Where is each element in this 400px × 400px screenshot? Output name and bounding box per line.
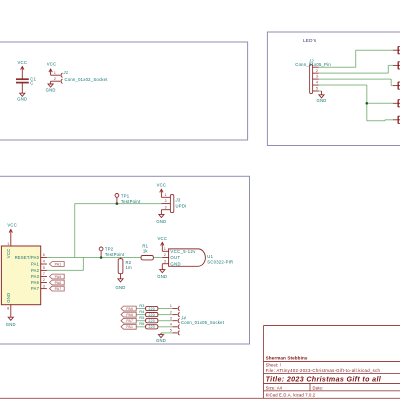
svg-text:TestPoint: TestPoint	[121, 199, 141, 204]
svg-text:3: 3	[316, 75, 318, 79]
svg-text:PA5: PA5	[55, 275, 62, 279]
svg-text:PA1: PA1	[55, 262, 62, 266]
svg-text:2: 2	[165, 199, 167, 203]
svg-text:UPDI: UPDI	[176, 203, 187, 208]
svg-text:4: 4	[316, 81, 318, 85]
svg-text:Conn_01x02_Socket: Conn_01x02_Socket	[65, 77, 109, 82]
svg-text:GND: GND	[156, 219, 166, 224]
svg-text:GND: GND	[170, 261, 181, 266]
svg-text:2: 2	[43, 278, 45, 282]
svg-text:PA3: PA3	[31, 274, 40, 279]
svg-text:PA5: PA5	[126, 307, 133, 311]
svg-text:R4: R4	[139, 310, 144, 314]
svg-text:R3: R3	[139, 304, 144, 308]
svg-text:220: 220	[148, 307, 154, 311]
svg-text:8: 8	[7, 307, 9, 311]
svg-text:TP2: TP2	[105, 247, 114, 252]
svg-text:LED’s: LED’s	[303, 38, 317, 43]
svg-text:6: 6	[43, 253, 45, 257]
svg-text:VCC: VCC	[7, 223, 17, 228]
svg-text:RESET/PA0: RESET/PA0	[15, 255, 40, 260]
svg-text:3: 3	[165, 205, 167, 209]
svg-text:GND: GND	[316, 98, 326, 103]
svg-text:1m: 1m	[126, 265, 133, 270]
svg-text:4: 4	[43, 260, 45, 264]
svg-text:File: ATtiny402-2023-Christmas: File: ATtiny402-2023-Christmas-Gift-to-a…	[266, 368, 381, 373]
svg-text:PA6: PA6	[31, 280, 40, 285]
svg-text:1: 1	[54, 71, 56, 75]
svg-text:PA2: PA2	[31, 268, 40, 273]
svg-text:3: 3	[164, 259, 166, 263]
svg-text:R6: R6	[139, 322, 144, 326]
svg-text:1: 1	[7, 242, 9, 246]
svg-text:1k: 1k	[143, 249, 149, 254]
svg-text:7: 7	[43, 272, 45, 276]
svg-text:GND: GND	[17, 96, 27, 101]
svg-text:OUT: OUT	[170, 255, 180, 260]
svg-text:TP1: TP1	[121, 194, 130, 199]
svg-text:220: 220	[148, 319, 154, 323]
svg-text:GND: GND	[6, 322, 16, 327]
svg-text:1: 1	[165, 193, 167, 197]
svg-text:3: 3	[43, 284, 45, 288]
svg-text:GND: GND	[46, 88, 56, 93]
svg-text:GND: GND	[115, 285, 125, 290]
svg-text:Date:: Date:	[313, 385, 324, 390]
svg-text:Sherman Stebbins: Sherman Stebbins	[266, 355, 308, 360]
svg-text:5: 5	[43, 266, 45, 270]
svg-text:VCC: VCC	[18, 60, 28, 65]
svg-text:2: 2	[164, 253, 166, 257]
svg-text:PA6: PA6	[126, 313, 133, 317]
svg-text:C: C	[30, 81, 33, 86]
svg-text:VCC_5-12v: VCC_5-12v	[170, 249, 196, 254]
svg-text:KiCad E.D.A. kicad 7.0.2: KiCad E.D.A. kicad 7.0.2	[266, 393, 316, 398]
svg-text:PA1: PA1	[126, 325, 133, 329]
svg-text:PA7: PA7	[31, 286, 40, 291]
svg-text:1: 1	[164, 247, 166, 251]
svg-text:220: 220	[148, 325, 154, 329]
svg-text:3: 3	[170, 316, 172, 320]
svg-text:2: 2	[170, 310, 172, 314]
svg-text:J3: J3	[175, 197, 181, 202]
svg-text:5: 5	[170, 329, 172, 333]
svg-text:R5: R5	[139, 316, 144, 320]
svg-text:Size: A4: Size: A4	[266, 385, 283, 390]
svg-text:VCC: VCC	[6, 249, 11, 259]
svg-text:Sheet: /: Sheet: /	[266, 363, 282, 368]
svg-text:J1: J1	[62, 70, 68, 75]
svg-text:PA7: PA7	[55, 287, 62, 291]
svg-text:2: 2	[316, 69, 318, 73]
svg-text:GND: GND	[157, 274, 167, 279]
svg-text:PA1: PA1	[31, 262, 40, 267]
svg-text:4: 4	[170, 323, 172, 327]
svg-text:5: 5	[316, 87, 318, 91]
svg-text:1: 1	[170, 304, 172, 308]
svg-text:PA7: PA7	[126, 319, 133, 323]
svg-text:U1: U1	[207, 254, 213, 259]
svg-text:Conn_01x05_Pin: Conn_01x05_Pin	[295, 62, 331, 67]
svg-text:Conn_01x05_Socket: Conn_01x05_Socket	[181, 320, 225, 325]
svg-text:TestPoint: TestPoint	[105, 252, 125, 257]
svg-text:SC0322-PIR: SC0322-PIR	[207, 259, 233, 264]
svg-text:PA6: PA6	[55, 281, 62, 285]
svg-text:GND: GND	[156, 338, 166, 343]
svg-text:2: 2	[54, 77, 56, 81]
svg-text:GND: GND	[6, 293, 11, 303]
svg-text:Title: 2023 Christmas Gift to: Title: 2023 Christmas Gift to all	[266, 376, 382, 384]
svg-text:VCC: VCC	[157, 182, 167, 187]
svg-text:220: 220	[148, 313, 154, 317]
svg-text:VCC: VCC	[47, 62, 57, 67]
svg-text:VCC: VCC	[158, 236, 168, 241]
